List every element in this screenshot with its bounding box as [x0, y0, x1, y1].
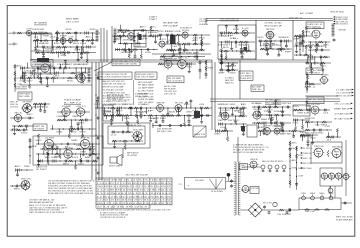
value label: [114, 111, 120, 113]
value label: [121, 52, 128, 54]
junction: [47, 148, 48, 149]
junction: [92, 32, 93, 33]
capacitor C99: [268, 106, 272, 109]
value label: [276, 45, 283, 47]
alignment paragraph: [233, 144, 269, 154]
wire: [52, 78, 54, 83]
resistor R80: [75, 74, 77, 79]
svg-text:AMP B+: AMP B+: [80, 136, 91, 139]
capacitor C87: [307, 109, 311, 112]
resistor R79: [37, 74, 39, 79]
capacitor C29: [220, 32, 224, 35]
svg-text:MF VIDEO: MF VIDEO: [23, 102, 33, 104]
value label: [272, 43, 280, 45]
wire: [152, 123, 154, 128]
ground: [200, 114, 203, 117]
svg-text:2.2: 2.2: [168, 40, 174, 42]
wire: [312, 135, 314, 141]
wire: [294, 45, 312, 47]
capacitor C66: [96, 137, 100, 140]
wire: [17, 32, 52, 34]
svg-text:SEC SOUND 6: SEC SOUND 6: [336, 24, 349, 26]
wire: [43, 150, 45, 154]
wire: [308, 41, 330, 43]
wire: [46, 156, 48, 161]
coil L6: [113, 29, 116, 41]
resistor R113: [230, 107, 235, 109]
input terminal: [9, 43, 18, 46]
capacitor C44: [299, 35, 302, 39]
svg-text:MEG 12AT7 .05 10K 6AU6 SEC MEG: MEG 12AT7 .05 10K 6AU6 SEC MEG: [233, 151, 263, 154]
capacitor C108: [305, 101, 308, 105]
phono jack box: [193, 126, 206, 137]
value label: [234, 110, 241, 112]
capacitor C21: [170, 48, 173, 52]
capacitor C37: [269, 40, 273, 43]
ground: [91, 42, 94, 45]
capacitor C89: [312, 129, 316, 132]
resistor R54: [239, 41, 244, 43]
value label: [280, 103, 287, 105]
resistor R32: [176, 34, 181, 36]
capacitor C141: [29, 139, 32, 143]
wire: [248, 46, 250, 51]
junction: [69, 128, 70, 129]
svg-text:PLATE 6BE6 6BE6 SYNC PLAT: PLATE 6BE6 6BE6 SYNC PLAT: [113, 60, 139, 63]
wire: [275, 102, 277, 107]
wire: [219, 32, 255, 34]
wire: [103, 28, 105, 62]
junction: [201, 34, 202, 35]
capacitor C3: [81, 39, 85, 42]
junction: [40, 72, 41, 73]
resistor R137: [124, 114, 129, 116]
svg-text:SEC: SEC: [9, 44, 14, 46]
junction: [225, 107, 226, 108]
wire: [171, 35, 173, 39]
value label: [160, 59, 168, 61]
junction: [47, 52, 48, 53]
junction: [82, 128, 83, 129]
IF can slug: [139, 34, 142, 40]
resistor R111: [305, 129, 310, 131]
junction: [270, 122, 271, 123]
note 2: [29, 204, 68, 209]
svg-text:6AU6: 6AU6: [310, 136, 316, 139]
junction: [317, 49, 318, 50]
wire: [183, 116, 185, 122]
value label: [30, 70, 39, 72]
value label: [35, 48, 42, 51]
wire: [300, 135, 312, 137]
svg-text:DET RF: DET RF: [311, 104, 321, 106]
junction: [59, 160, 60, 161]
capacitor C92: [235, 107, 239, 110]
resistor R100: [158, 63, 163, 65]
wire: [263, 123, 265, 129]
wire: [315, 42, 317, 48]
value label: [111, 134, 117, 136]
value label: [43, 34, 50, 37]
svg-text:2.2: 2.2: [51, 145, 57, 147]
capacitor C27: [134, 55, 137, 59]
rf resistor values: [305, 211, 316, 213]
capacitor C115: [185, 101, 188, 105]
coil L1: [39, 31, 43, 34]
wire: [270, 118, 272, 123]
ground: [61, 42, 64, 45]
value label: [283, 37, 290, 39]
wire: [30, 59, 212, 61]
resistor R13: [66, 32, 71, 34]
svg-text:DET CONT: DET CONT: [66, 21, 80, 23]
coil L17: [87, 68, 90, 82]
svg-text:GRID RF MOD: GRID RF MOD: [330, 11, 345, 13]
resistor R174: [289, 141, 291, 146]
value label: [67, 80, 74, 82]
svg-text:6SN7: 6SN7: [80, 151, 86, 153]
value label: [27, 114, 34, 116]
junction: [74, 32, 75, 33]
junction: [310, 49, 311, 50]
capacitor C110: [103, 113, 106, 117]
capacitor C136: [56, 146, 59, 150]
svg-text:12AT7: 12AT7: [315, 123, 321, 126]
resistor R98: [79, 119, 84, 121]
ground: [313, 61, 316, 64]
capacitor C127: [206, 114, 210, 117]
wire: [62, 33, 64, 39]
table title TUBE SOCKET VOLTAGES: [125, 175, 149, 177]
CHANNEL 2 label: [220, 19, 240, 21]
wire: [260, 41, 262, 46]
junction: [296, 176, 297, 177]
wire: [111, 26, 113, 62]
junction: [317, 62, 318, 63]
capacitor C49: [319, 56, 323, 59]
wire: [210, 101, 340, 103]
resistor R131: [194, 113, 196, 118]
ground: [281, 114, 284, 117]
svg-text:10K OSC IF AMP: 10K OSC IF AMP: [136, 76, 155, 79]
resistor R157: [46, 151, 48, 156]
capacitor C12: [77, 58, 80, 62]
ground: [113, 145, 116, 148]
capacitor C7: [42, 46, 46, 49]
ground: [80, 76, 83, 79]
resistor R149: [71, 128, 76, 130]
capacitor C2: [75, 31, 78, 35]
value label: [54, 156, 60, 158]
capacitor C34: [241, 55, 244, 59]
coil L21: [306, 82, 310, 85]
wire: [194, 38, 196, 44]
label column: [199, 18, 209, 26]
wire: [302, 120, 304, 125]
svg-text:2.2 12AT7 6BE6: 2.2 12AT7 6BE6: [336, 88, 352, 91]
coil L8: [136, 42, 140, 45]
svg-text:VIDEO MMF: VIDEO MMF: [133, 130, 144, 132]
svg-text:MOD MOD AMP: MOD MOD AMP: [138, 81, 153, 84]
wire: [302, 136, 304, 141]
capacitor C129: [76, 128, 80, 131]
value label: [239, 53, 245, 55]
ground: [309, 46, 312, 49]
svg-text:470K: 470K: [35, 64, 42, 66]
value label: [269, 116, 276, 119]
wire: [133, 80, 135, 105]
junction: [221, 41, 222, 42]
wire: [114, 36, 116, 40]
value label: [44, 157, 51, 159]
tube V28: [132, 130, 144, 143]
resistor R96: [57, 119, 62, 121]
wire: [51, 148, 53, 154]
capacitor C36: [265, 45, 268, 49]
wire: [237, 137, 239, 162]
wire: [145, 108, 147, 114]
svg-text:470K: 470K: [175, 31, 182, 33]
value label: [158, 31, 165, 33]
resistor R46: [128, 53, 130, 58]
choke tube: [273, 202, 277, 206]
value label: [268, 43, 275, 45]
wire: [296, 46, 298, 50]
junction: [146, 107, 147, 108]
wire: [116, 111, 118, 116]
value label: [326, 139, 332, 141]
bridge rectifier: [248, 203, 262, 217]
resistor R83: [14, 83, 16, 88]
wire: [278, 49, 280, 54]
ground: [37, 163, 40, 166]
svg-text:SYNC: SYNC: [158, 31, 165, 33]
svg-text:MMF MF IF: MMF MF IF: [334, 108, 351, 110]
svg-text:6BE6 MF: 6BE6 MF: [157, 103, 166, 105]
wire: [296, 146, 298, 190]
wire: [316, 46, 318, 50]
RF choke L41: [310, 193, 315, 200]
wire: [63, 68, 65, 73]
junction: [306, 35, 307, 36]
wire: [56, 149, 58, 154]
value label: [309, 59, 315, 61]
resistor R122: [293, 109, 298, 111]
resistor R151: [92, 149, 94, 154]
resistor R21: [85, 51, 90, 53]
capacitor C56: [80, 73, 83, 77]
top label: [149, 16, 158, 22]
resistor R74: [318, 41, 323, 43]
wire: [293, 131, 295, 135]
value label: [208, 66, 214, 69]
junction: [137, 115, 138, 116]
svg-text:MOD 2.2: MOD 2.2: [159, 39, 167, 41]
capacitor C120: [130, 106, 133, 110]
capacitor C150: [230, 179, 233, 183]
junction: [104, 107, 105, 108]
resistor R37: [183, 48, 185, 53]
value label: [258, 127, 266, 129]
svg-text:SYNC .01: SYNC .01: [178, 58, 189, 60]
svg-text:GRID: GRID: [70, 131, 77, 133]
wire: [177, 110, 179, 116]
value label: [148, 118, 155, 120]
junction: [95, 94, 96, 95]
value label: [267, 109, 273, 111]
svg-text:220 SOUN: 220 SOUN: [10, 107, 19, 109]
svg-text:10K AMP: 10K AMP: [253, 108, 263, 111]
capacitor C46: [302, 39, 305, 43]
value label: [293, 122, 300, 124]
junction: [310, 41, 311, 42]
svg-text:MEG SYNC: MEG SYNC: [175, 103, 183, 105]
wire: [221, 57, 223, 63]
left callout 2: [300, 152, 312, 155]
value label: [304, 112, 311, 114]
value label: [116, 37, 122, 40]
coil L13: [300, 34, 304, 37]
capacitor C100: [268, 110, 271, 114]
junction: [311, 62, 312, 63]
junction: [29, 155, 30, 156]
svg-text:6AU6: 6AU6: [311, 131, 317, 134]
junction: [27, 67, 28, 68]
svg-text:12AT7: 12AT7: [218, 119, 224, 122]
wire: [301, 36, 303, 42]
resistor R76: [320, 61, 322, 66]
resistor R34: [193, 34, 198, 36]
junction: [228, 62, 229, 63]
svg-text:GRID: GRID: [329, 193, 335, 195]
value label: [80, 43, 87, 45]
value label: [54, 43, 62, 45]
svg-text:SYNC 6SN7: SYNC 6SN7: [15, 87, 28, 89]
wire: [235, 116, 237, 120]
svg-text:MF SEC OSC: MF SEC OSC: [157, 131, 173, 133]
value label: [65, 146, 73, 148]
wire: [220, 108, 222, 112]
resistor R164: [126, 131, 131, 133]
wire: [33, 103, 50, 105]
svg-text:.05: .05: [198, 104, 204, 106]
wire: [221, 42, 223, 48]
junction: [282, 106, 283, 107]
wire: [258, 107, 260, 111]
wire: [37, 68, 39, 74]
value label: [123, 39, 130, 41]
left callout 4: [300, 162, 312, 165]
tube V14: [60, 105, 72, 118]
svg-text:6AU6: 6AU6: [243, 43, 249, 46]
ground: [13, 132, 16, 135]
value label: [175, 111, 184, 113]
junction: [12, 185, 13, 186]
wire: [241, 189, 250, 191]
ground: [301, 42, 304, 45]
junction: [172, 56, 173, 57]
junction: [38, 153, 39, 154]
svg-text:2.2: 2.2: [50, 36, 56, 38]
tube V33: [320, 173, 329, 181]
resistor R162: [59, 154, 61, 159]
resistor R67: [294, 35, 299, 37]
resistor R22: [86, 58, 88, 63]
value label: [160, 118, 168, 120]
junction: [14, 125, 15, 126]
junction: [196, 49, 197, 50]
resistor R84: [27, 77, 32, 79]
junction: [74, 143, 75, 144]
svg-text:.05 CONT MF: .05 CONT MF: [336, 92, 352, 94]
wire: [24, 73, 26, 78]
capacitor C52: [52, 67, 56, 70]
svg-text:OSC: OSC: [127, 104, 134, 106]
svg-text:6BE6: 6BE6: [256, 103, 262, 105]
junction: [114, 35, 115, 36]
resistor R8: [56, 30, 58, 35]
value label: [17, 65, 24, 67]
value label: [218, 104, 226, 106]
resistor R50: [193, 55, 198, 57]
wire: [22, 68, 24, 74]
resistor R181: [336, 128, 338, 133]
svg-text:IF MMF: IF MMF: [60, 36, 68, 38]
svg-text:100: 100: [126, 52, 132, 54]
channel caption 2: [307, 97, 324, 104]
wire: [240, 42, 242, 48]
svg-text:PLATE: PLATE: [208, 66, 214, 69]
junction: [26, 169, 27, 170]
wire: [70, 120, 72, 126]
value label: [298, 168, 305, 170]
svg-text:220 AMP: 220 AMP: [62, 105, 72, 108]
value label: [308, 46, 315, 48]
value label: [224, 44, 231, 46]
value label: [252, 103, 259, 105]
capacitor C1: [55, 39, 59, 42]
svg-text:PLATE MMF AVC: PLATE MMF AVC: [336, 218, 354, 221]
svg-text:OSC 2.2 OSC: OSC 2.2 OSC: [334, 103, 351, 105]
tube V26: [62, 148, 74, 160]
junction: [312, 134, 313, 135]
value label: [285, 51, 293, 53]
coil L5: [95, 30, 98, 41]
svg-text:CONT PLATE CH SYNC 220 GRI: CONT PLATE CH SYNC 220 GRI: [99, 73, 127, 76]
svg-text:6AU6 CH: 6AU6 CH: [36, 166, 48, 169]
coil L28: [16, 168, 20, 171]
svg-text:AVC: AVC: [192, 39, 199, 42]
resistor R86: [33, 68, 35, 73]
junction: [57, 77, 58, 78]
capacitor C47: [316, 43, 319, 47]
wire: [325, 42, 327, 48]
capacitor C132: [66, 143, 70, 146]
wire: [130, 44, 132, 50]
wire: [36, 153, 100, 155]
value label: [152, 32, 159, 34]
capacitor C101: [274, 99, 277, 103]
junction: [32, 67, 33, 68]
capacitor C154: [292, 135, 295, 139]
value label: [175, 31, 182, 33]
phono jack diagonal: [193, 126, 206, 137]
value label: [184, 104, 191, 106]
capacitor C155: [289, 147, 292, 151]
boxed section: [293, 105, 310, 116]
left callout 3: [300, 157, 313, 160]
bus label: [289, 18, 303, 20]
